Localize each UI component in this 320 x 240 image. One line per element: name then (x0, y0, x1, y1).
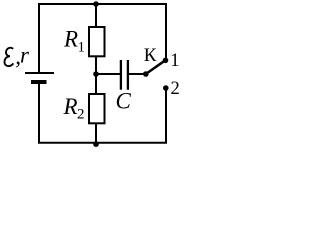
switch K blade (thrown to contact 1) (146, 60, 166, 74)
label EMF script E (4, 48, 13, 66)
wire node to capacitor (96, 73, 120, 75)
svg-text:r: r (20, 43, 30, 68)
switch K pivot dot (143, 71, 149, 77)
wire top (node A to node B) (38, 3, 167, 5)
wire R1 top lead (95, 4, 97, 27)
battery cell E,r plate short negative (31, 80, 47, 84)
svg-text:2: 2 (77, 107, 85, 123)
wire right lower (contact 2 to bottom corner) (165, 88, 167, 143)
svg-text:К: К (144, 45, 157, 66)
battery cell E,r plate long positive (25, 72, 54, 74)
svg-text:1: 1 (170, 51, 179, 71)
wire right upper (top corner to switch contact 1) (165, 3, 167, 60)
wire R1 bottom lead to node C (95, 56, 97, 75)
svg-text:R: R (63, 27, 78, 52)
resistor R2 (89, 94, 105, 123)
wire capacitor to switch pivot (129, 73, 146, 75)
capacitor C plate right (127, 60, 129, 90)
svg-text:1: 1 (78, 40, 86, 56)
wire left lower (battery to bottom) (38, 84, 40, 143)
wire R2 bottom lead (95, 123, 97, 143)
wire bottom (38, 142, 167, 144)
svg-text:R: R (63, 94, 78, 119)
svg-text:C: C (116, 89, 132, 114)
wire R2 top lead (95, 74, 97, 94)
switch contact 1 dot (163, 58, 169, 64)
resistor R1 (89, 27, 105, 56)
switch contact 2 dot (163, 85, 169, 91)
node junction dot bottom (93, 141, 99, 147)
node junction dot middle (93, 71, 99, 77)
node junction dot top (93, 1, 99, 7)
svg-text:2: 2 (171, 79, 180, 99)
capacitor C plate left (120, 60, 122, 90)
wire left upper (to battery) (38, 3, 40, 72)
